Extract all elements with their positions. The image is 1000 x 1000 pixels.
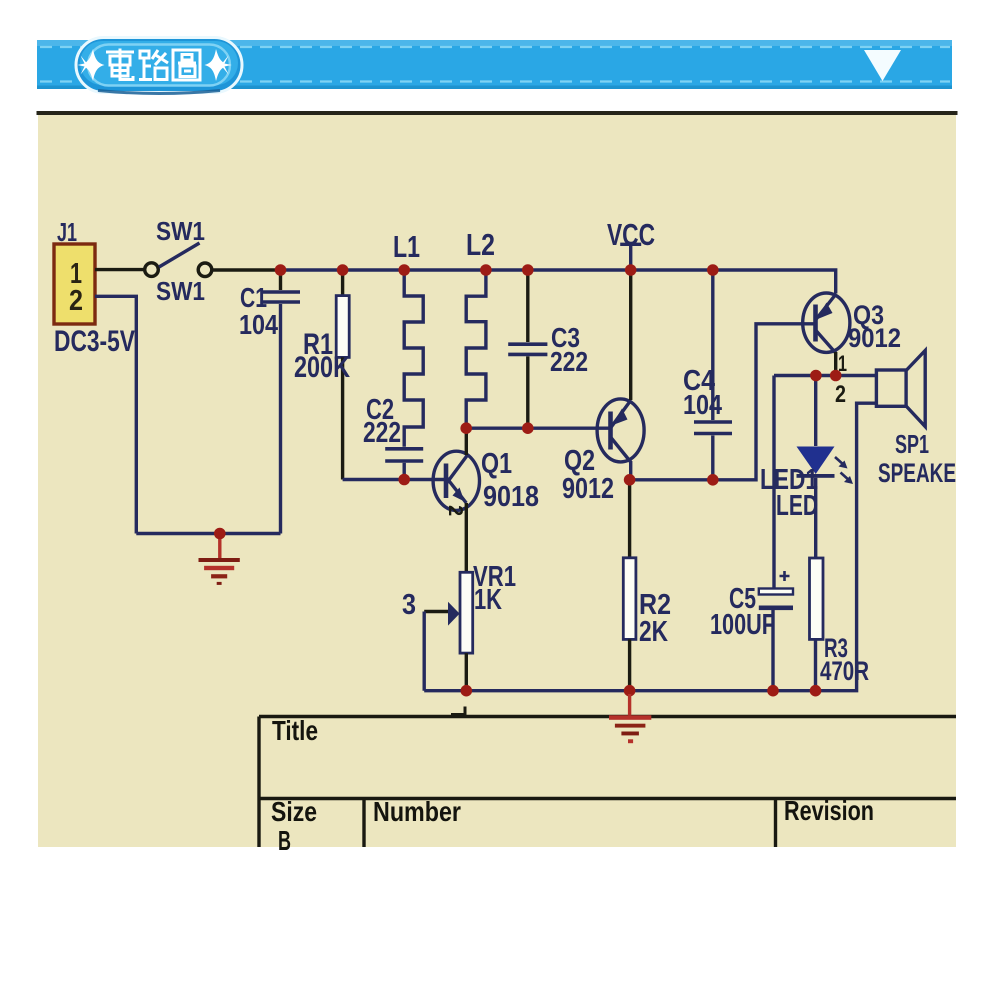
header pill bottom shadow (98, 91, 220, 94)
wire speaker node (774, 374, 876, 377)
junction dot C5/bottom rail (767, 685, 779, 697)
wire node L2/C3 to Q2 base (466, 427, 610, 430)
schematic beige background (38, 115, 956, 847)
ground symbol (bottom, earth) (609, 694, 651, 743)
svg-text:Title: Title (272, 715, 318, 746)
svg-text:100UF: 100UF (710, 609, 775, 641)
svg-text:Revision: Revision (784, 795, 874, 826)
svg-text:DC3-5V: DC3-5V (54, 325, 135, 358)
capacitor C5 (electrolytic) (759, 571, 793, 691)
wire SW1 to top rail (212, 268, 281, 271)
junction dot Q1 base node (398, 474, 410, 486)
resistor R3 (810, 558, 824, 691)
transistor Q1 (433, 451, 479, 510)
inductor L1 (404, 270, 423, 447)
capacitor C2 (385, 449, 423, 480)
junction dot L1/top rail (398, 264, 410, 276)
resistor R2 (623, 480, 636, 691)
transistor Q2 (597, 399, 644, 462)
Q2 emitter wire to VCC rail (629, 270, 632, 400)
junction dot C4 bottom node (707, 474, 719, 486)
junction dot C3 bottom node (522, 422, 534, 434)
svg-text:9012: 9012 (848, 323, 901, 353)
svg-text:SW1: SW1 (156, 276, 205, 306)
capacitor C3 (508, 270, 547, 428)
header title char 圖 (drawn strokes) (173, 50, 200, 80)
svg-text:1K: 1K (474, 584, 502, 616)
header title char 路 (drawn strokes) (139, 50, 168, 80)
svg-text:J1: J1 (57, 217, 77, 247)
potentiometer VR1 (424, 572, 473, 690)
svg-text:222: 222 (363, 417, 401, 449)
svg-text:Number: Number (373, 796, 461, 827)
Q1 emitter wire down to VR1 (465, 503, 468, 572)
svg-text:470R: 470R (820, 656, 869, 686)
header right sparkle (205, 49, 232, 81)
junction dot R1/top rail (337, 264, 349, 276)
junction dot LED node (810, 370, 822, 382)
header pill button (76, 38, 242, 93)
inductor L2 (466, 270, 486, 428)
junction dot VR1/bottom rail (461, 685, 473, 697)
svg-text:2K: 2K (639, 616, 668, 648)
svg-text:L2: L2 (466, 227, 495, 262)
svg-text:L1: L1 (393, 229, 420, 264)
wire Q2/C4 node to Q3 base (630, 324, 816, 480)
svg-text:222: 222 (550, 346, 588, 377)
header left sparkle (78, 49, 105, 81)
svg-text:2: 2 (69, 285, 83, 317)
svg-text:9018: 9018 (483, 481, 539, 513)
junction dot Q2 collector node (624, 474, 636, 486)
capacitor C4 (694, 270, 732, 480)
svg-text:SW1: SW1 (156, 216, 205, 246)
capacitor C1 (261, 270, 300, 534)
junction dot Q3 collector node (830, 370, 842, 382)
wire J1 pin2 down to ground rail (95, 296, 136, 533)
svg-text:2: 2 (835, 381, 846, 408)
Q3 collector wire down to node (834, 352, 837, 376)
svg-text:9012: 9012 (562, 473, 614, 505)
junction dot gnd-left (214, 528, 226, 540)
wire ground rail horizontal (136, 532, 280, 535)
title block frame (259, 717, 956, 848)
junction dot C3/top rail (522, 264, 534, 276)
svg-text:Q1: Q1 (481, 448, 512, 480)
bottom ground rail (424, 403, 876, 691)
LED LED1 (797, 376, 854, 559)
junction dot L2/top rail (480, 264, 492, 276)
junction dot R3/bottom rail (810, 685, 822, 697)
resistor R1 (336, 270, 349, 480)
Q1 collector wire up to node (465, 428, 468, 455)
VR1 pin 1 mark (451, 707, 465, 715)
connector J1 (54, 244, 95, 324)
ground symbol (left, earth) (199, 538, 240, 585)
junction dot C1/top rail (275, 264, 287, 276)
svg-text:Size: Size (271, 796, 317, 827)
header title char 電 (drawn strokes) (106, 49, 134, 80)
svg-text:SP1: SP1 (895, 429, 929, 459)
wire top rail VCC net (280, 270, 836, 294)
svg-text:104: 104 (683, 389, 722, 420)
junction dot L2/C3 node (460, 422, 472, 434)
header dropdown triangle (864, 50, 901, 81)
wire J1 pin1 to SW1 (95, 268, 145, 271)
VCC power symbol (620, 244, 641, 270)
wire Q1 base line (343, 478, 446, 481)
svg-text:LED: LED (776, 490, 818, 522)
header blue banner (37, 40, 952, 89)
junction dot C4/top rail (707, 264, 719, 276)
svg-text:SPEAKE: SPEAKE (878, 458, 956, 488)
svg-text:2: 2 (444, 505, 466, 516)
junction dot R2/bottom rail (624, 685, 636, 697)
junction dot VCC/top rail (625, 264, 637, 276)
speaker SP1 (876, 351, 925, 427)
switch SW1 (145, 243, 212, 277)
svg-text:B: B (278, 825, 291, 856)
schematic top border line (37, 111, 958, 115)
svg-text:3: 3 (402, 589, 416, 621)
Q2 collector wire down (629, 461, 632, 480)
svg-text:200K: 200K (294, 351, 350, 384)
transistor Q3 (803, 293, 850, 353)
svg-text:104: 104 (239, 309, 278, 340)
wire node down to C5 (772, 376, 775, 590)
